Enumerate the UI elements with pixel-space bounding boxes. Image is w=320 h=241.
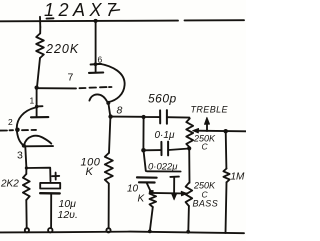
wire to 560p left plate (144, 116, 160, 118)
wire 1M to ground (226, 182, 227, 233)
wire node A to grid pin 7 (39, 87, 77, 89)
svg-text:3: 3 (17, 150, 23, 162)
wire 220K down to node A (37, 58, 40, 87)
wire 0.1u to treble bottom (169, 149, 190, 151)
crossbar of 7 in 12AX7 (111, 10, 120, 11)
wire bass node to bass pot (151, 192, 187, 195)
triode V1b envelope arc (99, 64, 125, 102)
plus sign 10u (52, 175, 59, 177)
junction dot wiper / 1M (224, 129, 228, 133)
ground junction dot bass (186, 230, 190, 234)
treble output arrow (up) (206, 123, 208, 131)
wire wiper node down to 1M (225, 131, 228, 168)
wire rail down to 220K (39, 27, 41, 34)
wire bottom ground rail (0, 232, 244, 234)
ground junction loop 10u (48, 228, 52, 232)
junction cathode / 10u branch (25, 166, 28, 169)
resistor R 1M (223, 169, 229, 183)
capacitor C 0.1u (160, 142, 162, 155)
triode V1b anode lead (pin 6) (95, 21, 97, 72)
wire 100K to ground (108, 184, 110, 229)
wire cathode down (25, 147, 26, 175)
svg-text:C: C (202, 142, 209, 152)
bass wiper arrow (down) (170, 176, 179, 178)
svg-text:12υ.: 12υ. (58, 209, 78, 221)
resistor R 2K2 (23, 174, 30, 200)
triode V1b cathode curve (89, 94, 107, 101)
triode V1b anode blob+tick (94, 62, 98, 66)
resistor R 100K (105, 153, 113, 184)
wire cathode pin 8 down (108, 103, 110, 116)
capacitor C 560p (159, 110, 161, 123)
svg-text:0·022μ: 0·022μ (148, 162, 178, 173)
wire node to 560p column (111, 116, 144, 118)
svg-text:K: K (86, 166, 94, 178)
svg-text:12AX7: 12AX7 (44, 0, 121, 20)
bass wiper arrowhead at pot (181, 191, 187, 196)
svg-text:560p: 560p (148, 92, 177, 106)
wire 560p to treble pot top (167, 116, 189, 118)
svg-text:220K: 220K (45, 42, 79, 56)
triode V1a anode lead (pin 1) (36, 88, 38, 117)
svg-text:2: 2 (8, 117, 13, 127)
wire B+ top rail left segment (0, 20, 178, 23)
wire 0.022u to bass node (147, 183, 151, 192)
svg-text:7: 7 (68, 72, 74, 84)
svg-text:0·1μ: 0·1μ (155, 130, 175, 141)
wire 2K2 to ground (25, 200, 27, 228)
treble wiper arrow (198, 130, 247, 133)
wire 0.1u row down to 0.022u (144, 150, 146, 171)
resistor R 220K (36, 34, 44, 59)
ground junction loop 2K2 (25, 228, 29, 232)
wire B+ top rail right segment (185, 19, 245, 21)
svg-text:BASS: BASS (193, 199, 219, 209)
wire input to grid pin 2 (0, 130, 7, 132)
label 0.022u underline (147, 170, 181, 172)
capacitor C 10u top plate (box) (40, 183, 60, 189)
potentiometer 250K treble body (186, 119, 193, 148)
junction dot treble bottom (187, 146, 191, 150)
triode V1a cathode curve (24, 136, 51, 145)
svg-text:TREBLE: TREBLE (191, 105, 229, 115)
wire node to 100K (109, 117, 110, 153)
capacitor C 0.022u plates (137, 176, 157, 179)
grid dashes triode 1 (22, 129, 28, 131)
wire 10K to ground (150, 207, 153, 230)
junction rail / anode pin 6 (94, 19, 98, 23)
svg-text:2K2: 2K2 (0, 179, 19, 190)
grid junction dot pin 2 (15, 128, 20, 133)
junction dot 0.1u row (141, 148, 146, 153)
capacitor C 10u bottom plate (40, 192, 60, 195)
resistor R 10K (150, 191, 157, 207)
triode V1a envelope arc (17, 108, 35, 146)
triode V1a anode plate (31, 116, 48, 118)
svg-text:1: 1 (30, 96, 35, 106)
wire to 0.1u left plate (144, 149, 161, 151)
junction rail to 220K (tick) (39, 17, 41, 27)
wire 10u to ground (50, 194, 52, 228)
svg-text:1M: 1M (231, 172, 246, 183)
svg-text:8: 8 (117, 105, 123, 117)
wire bass pot to ground (187, 206, 190, 232)
triode V1b anode plate (89, 71, 103, 74)
grid dashes triode 2 (80, 87, 86, 89)
junction dot cathode node (108, 114, 112, 118)
junction dot bass node (149, 190, 154, 195)
triode V1a anode blob+tick (35, 105, 39, 109)
wire 560p node down to 0.1u row (142, 117, 144, 150)
wire treble bottom to bass pot top (188, 148, 190, 182)
wire overlap dash on rail (47, 17, 54, 19)
junction dot 560p column (142, 115, 146, 119)
cathode junction blob pin 8 (106, 101, 110, 105)
wire to 10u cap (27, 168, 50, 182)
potentiometer 250K bass body (186, 183, 193, 206)
node A junction dot (plate1/grid2/220K) (35, 86, 39, 90)
cathode junction blob (22, 144, 26, 148)
ground junction loop 100K (106, 228, 110, 232)
ground junction dot 10K (148, 230, 152, 234)
